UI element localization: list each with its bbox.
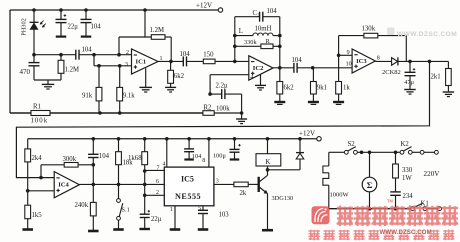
svg-text:1k68: 1k68 bbox=[128, 155, 142, 162]
svg-text:100k: 100k bbox=[216, 105, 230, 112]
svg-text:2k1: 2k1 bbox=[431, 74, 441, 81]
svg-text:1.2M: 1.2M bbox=[65, 67, 80, 74]
svg-text:IC5: IC5 bbox=[181, 175, 194, 184]
svg-text:8: 8 bbox=[202, 158, 205, 164]
svg-text:330: 330 bbox=[402, 167, 413, 174]
svg-text:R1: R1 bbox=[33, 103, 41, 110]
svg-text:150: 150 bbox=[203, 51, 214, 58]
svg-text:9: 9 bbox=[347, 50, 350, 56]
svg-text:2CK82: 2CK82 bbox=[382, 69, 401, 76]
svg-text:S2: S2 bbox=[348, 141, 356, 148]
svg-text:91k: 91k bbox=[82, 92, 93, 99]
svg-text:WWW.DZSC.COM: WWW.DZSC.COM bbox=[380, 229, 432, 236]
svg-text:IC3: IC3 bbox=[356, 58, 367, 65]
svg-text:6: 6 bbox=[156, 179, 159, 185]
svg-text:3: 3 bbox=[125, 62, 128, 68]
svg-text:R2: R2 bbox=[204, 104, 213, 111]
svg-text:104: 104 bbox=[192, 153, 202, 160]
svg-text:100k: 100k bbox=[31, 118, 49, 125]
svg-text:2: 2 bbox=[126, 50, 129, 56]
svg-text:IC2: IC2 bbox=[253, 65, 264, 72]
svg-text:NE555: NE555 bbox=[175, 192, 201, 201]
svg-text:+12V: +12V bbox=[299, 129, 315, 137]
svg-text:S.1: S.1 bbox=[122, 207, 130, 214]
svg-text:22μ: 22μ bbox=[151, 216, 162, 223]
svg-text:4: 4 bbox=[163, 161, 166, 167]
svg-text:104: 104 bbox=[91, 23, 102, 30]
svg-text:104: 104 bbox=[99, 153, 110, 160]
svg-text:330k: 330k bbox=[244, 39, 257, 46]
svg-text:WWW.DZSC.COM: WWW.DZSC.COM bbox=[397, 31, 457, 38]
svg-text:130k: 130k bbox=[362, 26, 376, 33]
svg-text:9.1k: 9.1k bbox=[123, 92, 135, 99]
svg-text:1k5: 1k5 bbox=[32, 212, 43, 219]
svg-text:2: 2 bbox=[156, 190, 159, 196]
svg-text:8: 8 bbox=[377, 56, 380, 62]
svg-text:4: 4 bbox=[250, 74, 253, 80]
svg-text:240k: 240k bbox=[75, 202, 89, 209]
svg-text:47μ: 47μ bbox=[404, 79, 414, 86]
svg-text:10mH: 10mH bbox=[255, 25, 272, 32]
svg-text:2k4: 2k4 bbox=[32, 155, 43, 162]
svg-text:7: 7 bbox=[157, 165, 160, 171]
svg-text:10: 10 bbox=[346, 61, 352, 67]
svg-text:1000W: 1000W bbox=[330, 191, 350, 198]
svg-text:IC4: IC4 bbox=[58, 182, 69, 189]
svg-text:1: 1 bbox=[170, 207, 173, 213]
svg-text:234: 234 bbox=[403, 193, 414, 200]
svg-text:K: K bbox=[265, 158, 271, 166]
svg-text:TM: TM bbox=[387, 199, 394, 204]
svg-text:470: 470 bbox=[20, 68, 31, 76]
svg-text:2k: 2k bbox=[240, 190, 247, 197]
svg-text:L: L bbox=[239, 28, 243, 35]
svg-text:6k2: 6k2 bbox=[284, 85, 295, 92]
svg-text:1W: 1W bbox=[402, 175, 412, 182]
svg-text:104: 104 bbox=[267, 8, 278, 15]
svg-text:104: 104 bbox=[180, 51, 191, 58]
svg-text:1k: 1k bbox=[343, 85, 350, 92]
svg-text:3DG130: 3DG130 bbox=[272, 195, 294, 202]
svg-text:300k: 300k bbox=[63, 156, 77, 163]
svg-text:Σ: Σ bbox=[367, 180, 373, 190]
svg-text:2.2μ: 2.2μ bbox=[216, 83, 228, 90]
svg-text:22μ: 22μ bbox=[68, 23, 79, 30]
svg-text:K2: K2 bbox=[401, 141, 410, 148]
svg-text:PH302: PH302 bbox=[21, 18, 28, 36]
svg-text:104: 104 bbox=[292, 57, 303, 64]
svg-text:+12V: +12V bbox=[196, 2, 212, 10]
svg-text:3: 3 bbox=[216, 178, 219, 184]
svg-text:104: 104 bbox=[82, 47, 93, 54]
svg-text:6k2: 6k2 bbox=[174, 73, 185, 80]
svg-text:IC1: IC1 bbox=[136, 58, 147, 65]
svg-text:9k1: 9k1 bbox=[317, 85, 327, 92]
svg-text:220V: 220V bbox=[424, 170, 441, 178]
svg-text:1.2M: 1.2M bbox=[150, 27, 165, 34]
svg-text:100μ: 100μ bbox=[213, 152, 226, 159]
svg-text:103: 103 bbox=[219, 212, 230, 219]
